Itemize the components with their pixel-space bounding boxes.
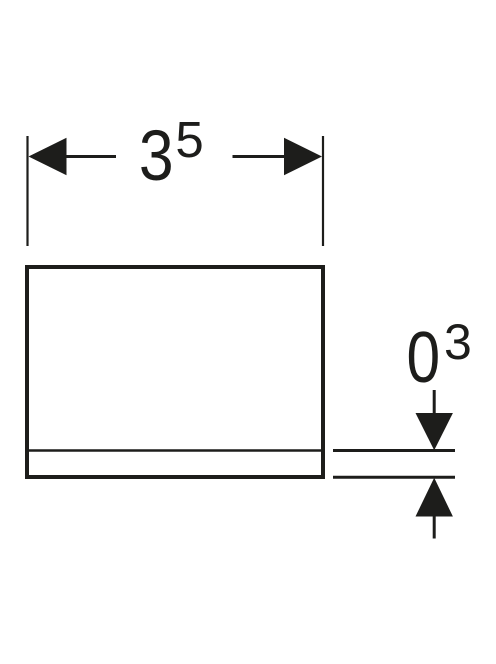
extension line right bottom (thickness dim) xyxy=(333,476,455,479)
dimension label 3 (width value) xyxy=(139,116,174,196)
extension line right top (thickness dim) xyxy=(333,449,455,452)
dimension label 0 (thickness value) xyxy=(407,318,441,398)
arrowhead up xyxy=(416,478,453,517)
panel bottom edge line inside cabinet xyxy=(29,449,321,452)
svg-text:3: 3 xyxy=(444,314,472,370)
svg-text:3: 3 xyxy=(139,116,174,196)
cabinet outline rectangle xyxy=(27,267,323,477)
dimension line left shaft xyxy=(60,155,116,158)
extension line left (width dim) xyxy=(26,136,28,246)
extension line right (width dim) xyxy=(322,136,324,246)
dimension line right shaft xyxy=(233,155,291,158)
arrowhead left xyxy=(29,138,67,176)
svg-text:0: 0 xyxy=(407,318,441,398)
svg-text:5: 5 xyxy=(175,111,203,168)
leader line below up arrow xyxy=(433,516,436,539)
arrowhead down xyxy=(416,413,453,450)
arrowhead right xyxy=(284,138,322,176)
leader line above down arrow xyxy=(433,390,436,416)
